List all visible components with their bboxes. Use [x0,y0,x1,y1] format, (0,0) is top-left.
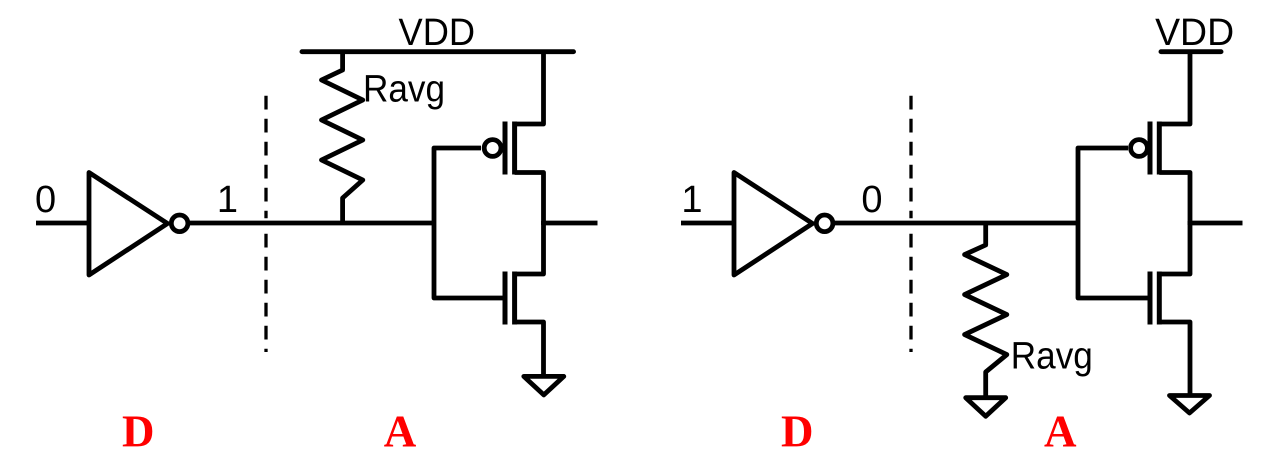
M2 drain to output [515,221,544,274]
wire CMOS gate bus right [1078,148,1148,298]
M1 drain to output [515,173,544,226]
resistor R1 Ravg pull-up [322,52,363,223]
M1 gate bar [503,122,508,175]
M3 drain to output [1159,173,1190,226]
wire output right [1190,221,1243,226]
svg-text:D: D [122,407,155,457]
svg-text:Ravg: Ravg [1011,335,1093,377]
inverter U2 [734,173,813,276]
dashed domain boundary right [909,96,912,219]
transistor M1 PMOS left: bubble [484,140,501,157]
M1 channel bar [512,122,517,175]
M4 channel bar [1157,272,1162,325]
VDD rail left [302,49,574,54]
svg-text:D: D [781,407,814,457]
M4 source to ground [1159,322,1190,397]
svg-text:VDD: VDD [399,12,476,54]
transistor M4 NMOS right: gate bar [1148,272,1153,325]
VDD rail right [1161,49,1221,54]
svg-text:A: A [1044,407,1077,457]
svg-text:A: A [384,407,417,457]
M3 channel bar [1157,122,1162,175]
inverter U1 bubble [171,215,188,232]
wire CMOS gate bus left [434,148,503,298]
resistor R2 Ravg pull-down [965,223,1007,399]
M3 source to VDD [1159,50,1190,124]
wire inverter output to gate bus right [833,221,1078,226]
M2 channel bar [512,272,517,325]
inverter U1 [89,173,168,276]
svg-text:1: 1 [217,179,238,221]
M3 gate bar [1148,122,1153,175]
M2 source to ground [515,322,544,378]
ground left [524,376,564,395]
wire input left [36,221,91,226]
M4 drain to output [1159,221,1190,274]
svg-text:VDD: VDD [1155,12,1234,54]
svg-text:0: 0 [35,179,56,221]
inverter U2 bubble [816,215,833,232]
wire inverter output to gate bus [188,221,434,226]
svg-text:Ravg: Ravg [363,69,445,111]
transistor M3 PMOS right: bubble [1131,140,1148,157]
wire output left [544,221,598,226]
ground under M4 [1170,396,1210,414]
svg-text:0: 0 [861,179,882,221]
svg-text:1: 1 [681,179,702,221]
wire input right [681,221,736,226]
transistor M2 NMOS left: gate bar [503,272,508,325]
dashed domain boundary left [264,96,267,219]
ground under R2 [966,398,1006,417]
M1 source to VDD [515,50,544,124]
